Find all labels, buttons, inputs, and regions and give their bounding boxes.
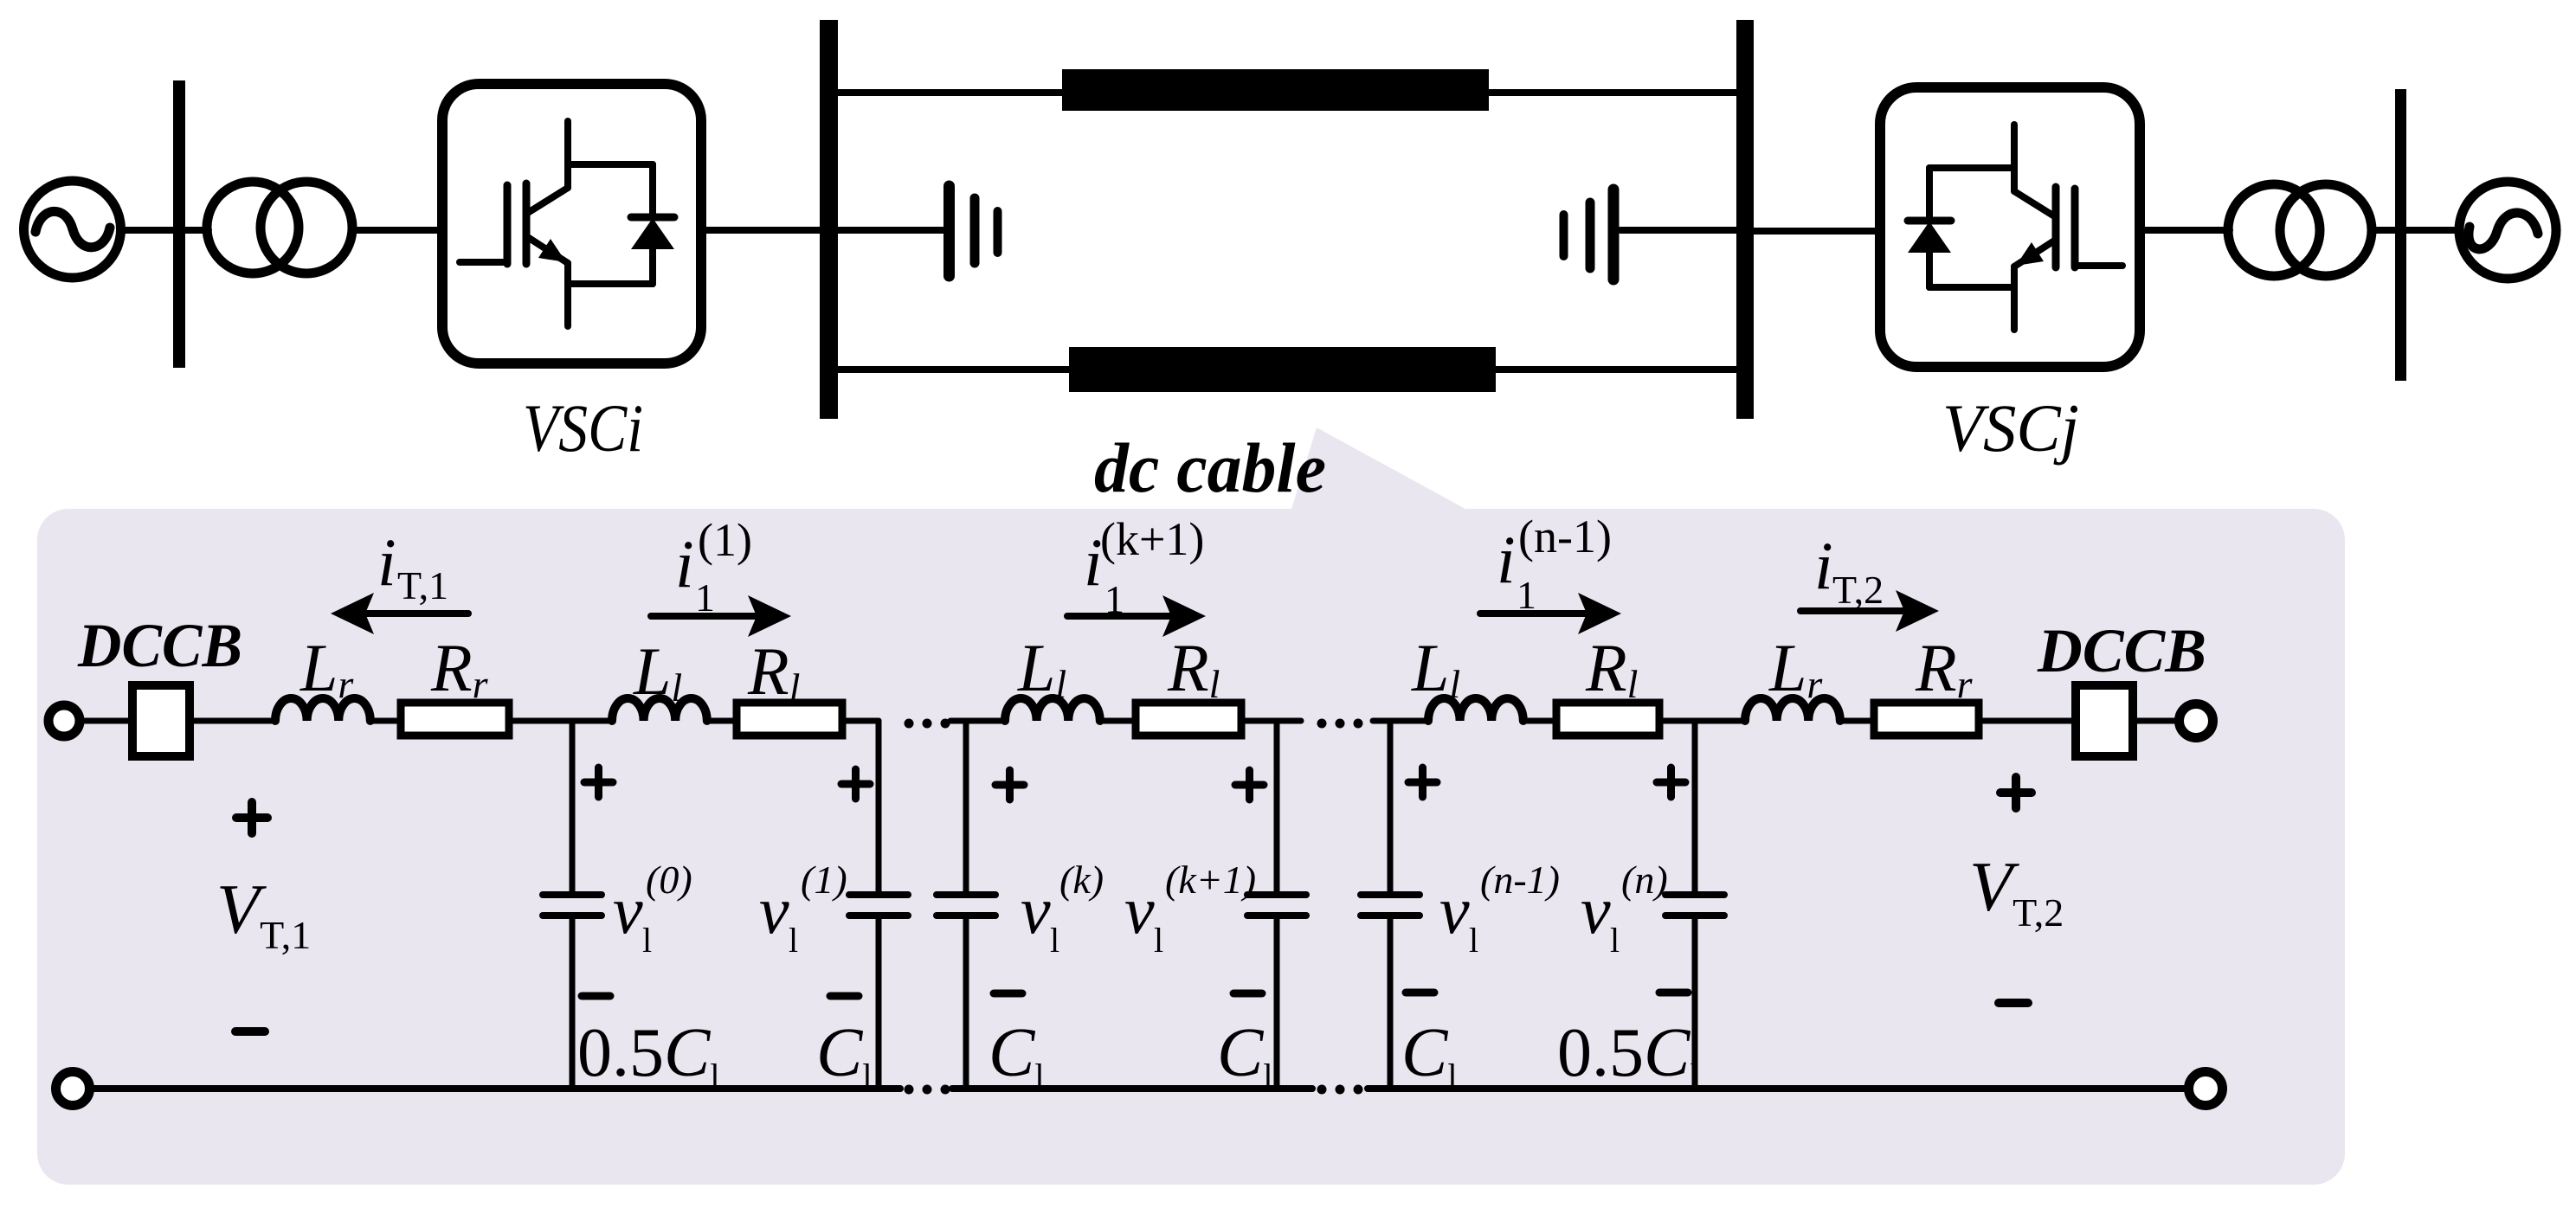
svg-text:l: l	[642, 921, 652, 960]
capacitor Cl (node k)	[937, 895, 995, 916]
capacitor Cl (node 1)	[849, 895, 908, 916]
wire T1 to VSCi	[352, 227, 437, 234]
svg-text:(k+1): (k+1)	[1100, 513, 1204, 565]
DCCB breaker (right)	[2076, 685, 2133, 756]
svg-text:(1): (1)	[801, 858, 847, 902]
inductor Ll (cell 1)	[612, 698, 707, 721]
svg-text:0.5Cl: 0.5Cl	[577, 1015, 719, 1096]
capacitor 0.5Cl (right end)	[1665, 895, 1724, 916]
ground electrode (left)	[838, 186, 998, 276]
IGBT with antiparallel diode inside VSCi	[460, 121, 674, 326]
wire ac bus 1 to transformer T1	[185, 227, 209, 234]
ground electrode (right)	[1564, 190, 1737, 280]
node k shunt branch upper	[963, 721, 969, 895]
minus sign node n-1	[1406, 989, 1434, 997]
svg-text:v: v	[1124, 872, 1155, 948]
svg-text:1: 1	[695, 575, 715, 620]
svg-text:DCCB: DCCB	[77, 611, 242, 680]
capacitor Cl (node k+1)	[1247, 895, 1306, 916]
lavender detail panel	[37, 509, 2345, 1185]
current arrow iT,2	[1800, 590, 1939, 632]
wire ac bus 2 to ac source G2	[2406, 227, 2461, 234]
capacitor Cl (node n-1)	[1361, 895, 1420, 916]
ac bus 2	[2395, 89, 2406, 381]
svg-text:v: v	[1581, 872, 1611, 948]
plus sign node 0	[584, 768, 613, 797]
label i1(n-1)	[1497, 511, 1612, 617]
label i1(1)	[675, 514, 752, 620]
svg-text:i: i	[1497, 522, 1516, 597]
current arrow i1(n-1)	[1480, 593, 1621, 634]
plus sign VT,2	[2000, 777, 2032, 808]
svg-text:(n-1): (n-1)	[1518, 511, 1612, 562]
wire G1 to ac bus 1	[120, 227, 173, 234]
svg-text:v: v	[759, 872, 789, 948]
svg-text:i: i	[1814, 528, 1833, 603]
label v(k+1)	[1124, 858, 1256, 960]
node 1 shunt branch upper	[876, 721, 882, 895]
ellipsis dots (bottom rail, first gap)	[905, 1085, 950, 1095]
svg-text:v: v	[613, 872, 643, 948]
terminal node (top right)	[2180, 704, 2213, 738]
wire top cable to dc bus right	[1489, 89, 1736, 96]
node n shunt branch upper	[1692, 721, 1698, 895]
svg-text:(n): (n)	[1621, 858, 1668, 902]
svg-text:DCCB: DCCB	[2037, 616, 2206, 685]
label v(k)	[1021, 858, 1104, 960]
node 0 shunt branch lower	[570, 916, 576, 1089]
wire Rln to node n	[1659, 718, 1745, 724]
plus sign node n-1	[1408, 768, 1437, 797]
resistor Rl (cell 1)	[737, 703, 842, 736]
wire VSCi to dc bus left	[706, 227, 820, 234]
wire DCCB2 to terminal	[2137, 718, 2179, 724]
transformer T1	[207, 182, 352, 273]
svg-text:l: l	[1469, 921, 1478, 960]
wire Llk to Rlk	[1100, 718, 1136, 724]
ellipsis dots (wire row, second gap)	[1317, 719, 1363, 729]
wire dc bus right to VSCj	[1754, 228, 1875, 235]
wire dc bus left to top cable	[838, 89, 1062, 96]
resistor Rr (right)	[1874, 703, 1979, 736]
wire stub cell n-1 left	[1373, 718, 1428, 724]
plus sign node k	[995, 770, 1024, 800]
dc bus (left)	[820, 20, 838, 419]
svg-text:1: 1	[1104, 577, 1124, 621]
minus sign VT,2	[1999, 999, 2028, 1007]
ellipsis dots (wire row, first gap)	[905, 719, 950, 729]
plus sign node n	[1657, 768, 1685, 797]
transformer T2	[2228, 184, 2372, 276]
ac source G2	[2459, 182, 2556, 279]
svg-text:(k): (k)	[1059, 858, 1104, 902]
plus sign VT,1	[236, 802, 267, 833]
label v(n)	[1581, 858, 1668, 960]
wire DCCB1 to Lr1	[194, 718, 275, 724]
inductor Ll (cell n-1)	[1428, 698, 1523, 721]
plus sign node k+1	[1235, 770, 1264, 800]
capacitor 0.5Cl (left end)	[543, 895, 602, 916]
dc cable conductor (bottom)	[1069, 347, 1496, 392]
current arrow i1(1)	[651, 595, 791, 637]
label iT,2	[1814, 528, 1884, 612]
minus sign node 0	[582, 993, 610, 1000]
wire Ll1 to Rl1	[707, 718, 737, 724]
bottom rail segment 1	[90, 1085, 900, 1092]
ellipsis dots (bottom rail, second gap)	[1317, 1085, 1363, 1095]
wire Lr2 to Rr2	[1840, 718, 1874, 724]
wire Rl1 to node 1	[842, 718, 879, 724]
zoom wedge from dc cable to panel	[1291, 427, 1472, 512]
terminal node (bottom right)	[2189, 1072, 2223, 1106]
node 0 shunt branch upper	[570, 721, 576, 895]
bottom rail segment 2	[952, 1085, 1312, 1092]
svg-text:(k+1): (k+1)	[1165, 858, 1256, 902]
node n-1 shunt branch lower	[1388, 916, 1394, 1089]
plus sign node 1	[841, 769, 870, 799]
VSC converter VSCi box	[442, 84, 701, 363]
svg-text:i: i	[675, 526, 694, 601]
svg-text:v: v	[1021, 872, 1051, 948]
wire T2 to ac bus 2	[2372, 227, 2395, 234]
inductor Ll (cell k)	[1005, 698, 1100, 721]
resistor Rl (cell k)	[1136, 703, 1241, 736]
wire dc bus left to bottom cable	[838, 366, 1069, 373]
node k+1 shunt branch lower	[1274, 916, 1280, 1089]
svg-text:T,1: T,1	[397, 563, 448, 607]
label i1(k+1)	[1084, 513, 1204, 621]
terminal node (top left)	[48, 705, 80, 736]
ac source G1	[24, 181, 121, 278]
node k shunt branch lower	[963, 916, 969, 1089]
minus sign node n	[1659, 989, 1688, 997]
IGBT with antiparallel diode inside VSCj (mirrored)	[1908, 125, 2122, 330]
node n shunt branch lower	[1692, 916, 1698, 1089]
svg-text:i: i	[377, 524, 396, 600]
dc bus (right)	[1736, 20, 1754, 419]
wire Rr1 to node 0	[509, 718, 612, 724]
svg-text:0.5Cl: 0.5Cl	[1557, 1015, 1699, 1096]
bottom rail segment 3	[1368, 1085, 2188, 1092]
node 1 shunt branch lower	[876, 916, 882, 1089]
wire Rlk to node k+1	[1241, 718, 1301, 724]
svg-text:l: l	[1610, 921, 1620, 960]
wire Lr1 to Rr1	[370, 718, 401, 724]
svg-text:(1): (1)	[698, 514, 752, 566]
current arrow iT,1	[331, 593, 468, 634]
svg-text:(n-1): (n-1)	[1480, 858, 1560, 902]
svg-text:T,2: T,2	[1832, 568, 1884, 612]
wire Rr2 to DCCB2	[1979, 718, 2071, 724]
wire VSCj to transformer T2	[2145, 227, 2230, 234]
svg-text:VSCi: VSCi	[523, 390, 643, 466]
inductor Lr (right)	[1745, 698, 1840, 721]
node k+1 shunt branch upper	[1274, 721, 1280, 895]
resistor Rr (left)	[401, 703, 509, 736]
svg-text:l: l	[1154, 921, 1163, 960]
svg-text:l: l	[1050, 921, 1059, 960]
wire terminal to DCCB1	[81, 718, 128, 724]
label v(0)	[613, 858, 692, 960]
DCCB breaker (left)	[132, 685, 190, 756]
minus sign VT,1	[235, 1027, 265, 1036]
ac bus 1	[173, 80, 185, 368]
svg-text:l: l	[789, 921, 798, 960]
label iT,1	[377, 524, 448, 607]
dc cable conductor (top)	[1062, 69, 1489, 111]
wire stub cell k left	[950, 718, 1005, 724]
minus sign node k	[994, 990, 1022, 998]
svg-text:VSCj: VSCj	[1942, 390, 2079, 466]
current arrow i1(k+1)	[1067, 595, 1206, 637]
wire bottom cable to dc bus right	[1496, 366, 1736, 373]
svg-text:dc cable: dc cable	[1094, 428, 1326, 507]
label v(n-1)	[1439, 858, 1560, 960]
inductor Lr (left)	[275, 698, 370, 721]
svg-text:1: 1	[1517, 573, 1536, 617]
wire Lln to Rln	[1523, 718, 1556, 724]
minus sign node k+1	[1233, 990, 1262, 998]
resistor Rl (cell n-1)	[1556, 703, 1659, 736]
terminal node (bottom left)	[56, 1072, 90, 1106]
minus sign node 1	[830, 993, 859, 1000]
svg-text:(0): (0)	[646, 858, 692, 902]
label v(1)	[759, 858, 847, 960]
svg-text:v: v	[1439, 872, 1470, 948]
node n-1 shunt branch upper	[1388, 721, 1394, 895]
VSC converter VSCj box	[1880, 87, 2140, 367]
